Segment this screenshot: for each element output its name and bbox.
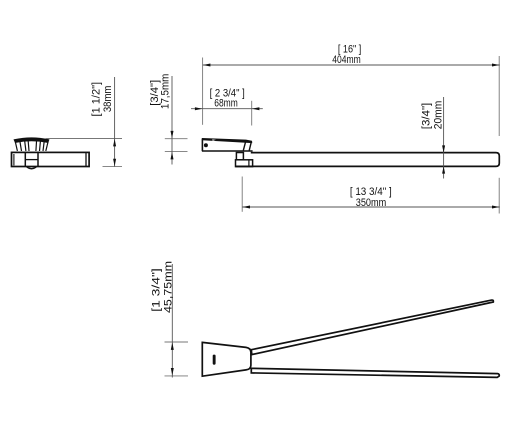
dimension 38mm: rotated label [1 1/2"] 38mm [90,82,114,117]
dimension 38mm: extension lines [46,139,123,167]
svg-text:350mm: 350mm [356,197,387,209]
svg-text:45,75mm: 45,75mm [162,261,174,313]
bottom view: slot tick on base [213,355,216,365]
front view: mounting arm outline [202,138,253,151]
front view: hinge piece upper [236,153,243,160]
dimension 404mm: dimension line and arrows [203,64,500,67]
svg-text:[1 1/2"]: [1 1/2"] [90,82,102,117]
dimension 68mm: dimension line and outside arrows [191,107,263,110]
dimension 17,5mm: dimension line and outside arrows [171,76,174,165]
front view: arm top shaded wedge [202,138,252,143]
dimension 45,75mm: dimension line and arrows [171,264,174,378]
dimension 350mm: label [13 3/4"] 350mm [350,186,392,209]
dimension 38mm: dimension line and arrows [113,77,116,167]
dimension 45,75mm: extension lines [165,342,189,376]
dimension 17,5mm: extension lines [165,139,188,152]
front view: arm screw dot [204,143,208,147]
front view: hinge piece lower [236,160,253,167]
dimension 404mm: label [16"] 404mm [332,43,361,66]
svg-text:38mm: 38mm [102,85,114,112]
svg-text:[1 3/4"]: [1 3/4"] [151,268,163,312]
side view: knob facet lines [15,140,48,151]
dimension 17,5mm: rotated label [3/4"] 17,5mm [149,73,172,109]
front view: long bar [236,153,500,167]
dimension 20mm: rotated label [3/4"] 20mm [421,101,445,130]
bottom view: upper arm [251,300,493,355]
side view: hinge block on bar [25,152,38,168]
dimension 68mm: extension line right [251,101,253,126]
svg-text:20mm: 20mm [432,101,444,130]
bottom view: mount base trapezoid [202,342,251,376]
dimension 20mm: dimension line and outside arrows [442,97,445,179]
dimension 404mm: extension lines [203,56,500,214]
dimension 350mm: dimension line and arrows [242,206,500,209]
dimension 350mm: extension line left [241,177,243,212]
svg-text:404mm: 404mm [332,54,361,66]
bottom view: lower arm [251,368,499,377]
svg-text:17,5mm: 17,5mm [160,73,172,109]
dimension 68mm: label [2 3/4"] 68mm [210,87,245,109]
dimension 45,75mm: rotated label [1 3/4"] 45,75mm [151,261,175,313]
svg-text:[3/4"]: [3/4"] [421,103,433,130]
side view: bar body [12,152,90,166]
side view: knurled knob cap [14,138,49,143]
svg-text:68mm: 68mm [214,98,238,110]
